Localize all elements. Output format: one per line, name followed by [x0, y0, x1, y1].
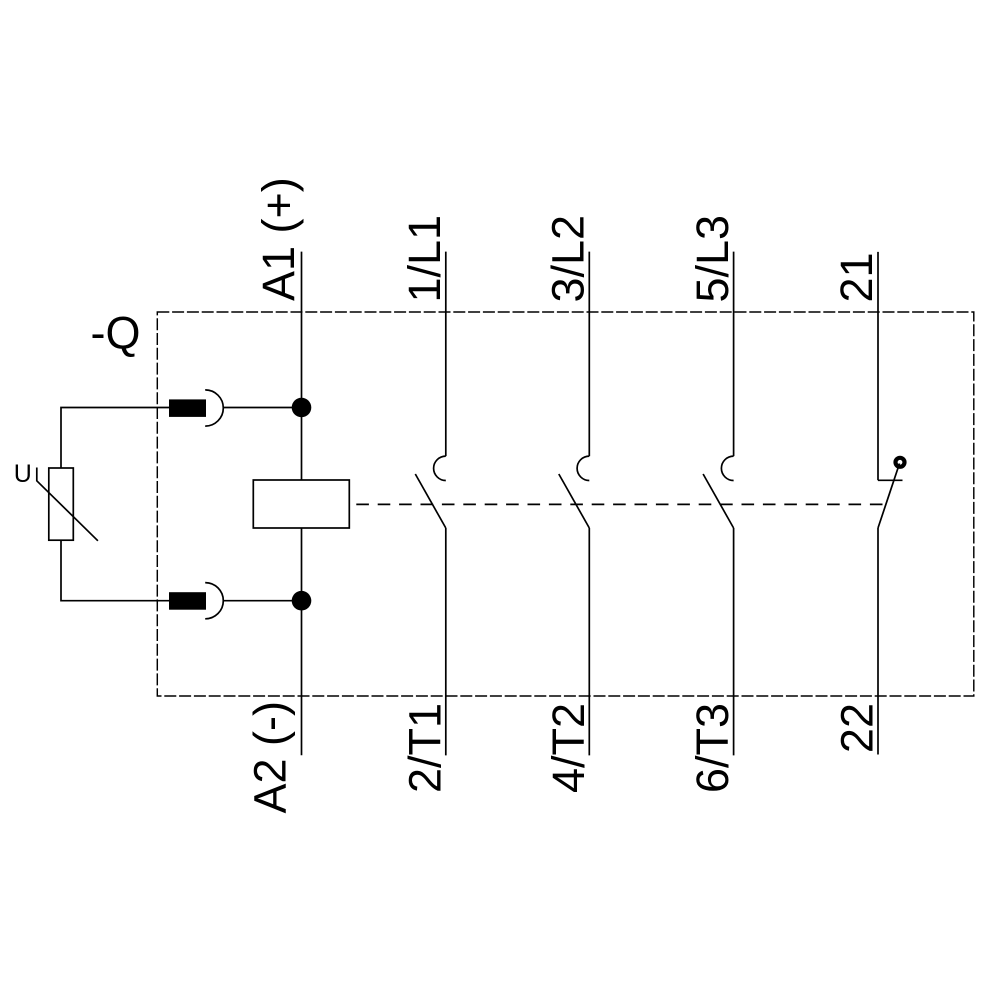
plug-in connector lower (socket arc) — [205, 583, 223, 619]
svg-text:3/L2: 3/L2 — [543, 215, 594, 303]
mechanical linkage (dashed actuator line) — [349, 503, 886, 505]
main pole 3/L2-4/T2 bottom lead — [588, 528, 590, 755]
node A1 junction — [292, 398, 312, 418]
contactor enclosure -Q (dashed outline) — [157, 312, 974, 696]
aux contact 21-22 top lead — [877, 252, 879, 480]
varistor U symbol stroke — [37, 468, 98, 541]
varistor U body — [49, 468, 74, 540]
main pole 1/L1-2/T1 top lead — [445, 252, 447, 457]
svg-text:2/T1: 2/T1 — [399, 703, 450, 793]
coil -Q (operating coil) — [253, 480, 349, 528]
aux contact 21-22 bottom lead — [877, 528, 879, 755]
svg-text:1/L1: 1/L1 — [399, 215, 450, 303]
svg-text:6/T3: 6/T3 — [687, 703, 738, 793]
wire varistor bottom — [61, 540, 169, 601]
aux contact 21-22 fixed bar — [878, 479, 903, 481]
plug-in connector upper (male pin) — [169, 399, 206, 417]
main pole 5/L3-6/T3 top lead — [733, 252, 735, 457]
svg-text:4/T2: 4/T2 — [543, 703, 594, 793]
wire A2 lead — [301, 528, 303, 755]
wire varistor top — [61, 408, 169, 469]
aux contact 21-22 moving blade — [878, 464, 900, 529]
svg-text:21: 21 — [831, 252, 882, 302]
main pole 3/L2-4/T2 moving blade — [559, 474, 590, 528]
wire A1 lead — [301, 252, 303, 480]
main pole 3/L2-4/T2 fixed contact arc — [577, 456, 589, 480]
svg-text:22: 22 — [831, 703, 882, 753]
main pole 1/L1-2/T1 bottom lead — [445, 528, 447, 755]
main pole 3/L2-4/T2 top lead — [588, 252, 590, 457]
node A2 junction — [292, 591, 312, 611]
main pole 5/L3-6/T3 fixed contact arc — [721, 456, 733, 480]
main pole 1/L1-2/T1 moving blade — [415, 474, 446, 528]
plug-in connector upper (socket arc) — [205, 390, 223, 426]
wire lower arc to node A2 — [223, 600, 301, 602]
aux contact 21-22 pivot ring — [896, 458, 905, 467]
svg-text:5/L3: 5/L3 — [687, 215, 738, 303]
svg-text:A1 (+): A1 (+) — [253, 177, 304, 301]
main pole 1/L1-2/T1 fixed contact arc — [434, 456, 446, 480]
main pole 5/L3-6/T3 moving blade — [703, 474, 734, 528]
main pole 5/L3-6/T3 bottom lead — [733, 528, 735, 755]
svg-text:A2 (-): A2 (-) — [244, 701, 295, 814]
svg-text:U: U — [14, 460, 32, 488]
plug-in connector lower (male pin) — [169, 592, 206, 610]
wire upper arc to node A1 — [223, 407, 301, 409]
svg-text:-Q: -Q — [91, 308, 141, 359]
